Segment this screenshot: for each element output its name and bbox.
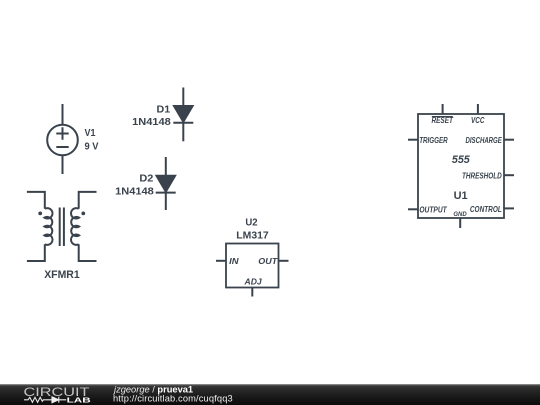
svg-text:ADJ: ADJ <box>243 278 262 287</box>
pin OUT wire <box>279 260 289 262</box>
pin GND wire <box>459 218 461 228</box>
svg-text:9 V: 9 V <box>85 142 99 153</box>
svg-text:OUTPUT: OUTPUT <box>419 206 447 215</box>
regulator U2 box <box>216 244 289 297</box>
wire <box>182 123 184 142</box>
footer bar <box>0 384 540 405</box>
wire <box>165 193 167 210</box>
transformer XFMR1 <box>27 192 97 261</box>
svg-text:U2: U2 <box>245 217 257 229</box>
logo resistor zigzag <box>24 397 47 402</box>
svg-text:GND: GND <box>453 211 467 218</box>
wire <box>79 192 97 209</box>
wire <box>62 155 64 174</box>
RESET overline <box>432 116 453 118</box>
svg-text:DISCHARGE: DISCHARGE <box>466 136 503 145</box>
pin TRIGGER wire <box>408 139 418 141</box>
svg-text:1N4148: 1N4148 <box>132 116 171 128</box>
diode D1 <box>173 88 193 142</box>
svg-text:V1: V1 <box>85 128 96 139</box>
diode D2 <box>156 157 176 210</box>
wire <box>27 192 45 209</box>
logo diode <box>47 397 66 403</box>
core <box>60 208 64 247</box>
wire <box>79 244 97 261</box>
pin THRESHOLD wire <box>504 174 514 176</box>
svg-text:XFMR1: XFMR1 <box>44 269 80 281</box>
svg-text:VCC: VCC <box>471 116 485 125</box>
svg-text:LAB: LAB <box>67 396 92 405</box>
secondary winding <box>71 208 79 245</box>
pin CONTROL wire <box>504 207 514 209</box>
svg-text:U1: U1 <box>454 190 468 202</box>
svg-text:RESET: RESET <box>431 116 453 125</box>
pin DISCHARGE wire <box>504 139 514 141</box>
svg-text:OUT: OUT <box>258 257 278 266</box>
polarity dots <box>38 212 42 216</box>
svg-text:IN: IN <box>229 257 239 266</box>
pin ADJ wire <box>251 288 253 297</box>
svg-text:1N4148: 1N4148 <box>115 186 154 198</box>
svg-text:CONTROL: CONTROL <box>470 205 502 214</box>
svg-text:555: 555 <box>452 154 471 166</box>
wire <box>27 244 45 261</box>
voltage source V1 <box>47 104 78 174</box>
svg-text:TRIGGER: TRIGGER <box>419 136 448 145</box>
svg-text:D2: D2 <box>139 173 153 185</box>
wire <box>182 88 184 107</box>
svg-text:THRESHOLD: THRESHOLD <box>462 171 502 180</box>
pin RESET wire <box>442 104 444 114</box>
primary winding <box>44 208 52 245</box>
svg-text:D1: D1 <box>157 103 171 115</box>
pin IN wire <box>216 260 226 262</box>
wire <box>62 104 64 125</box>
svg-text:http://circuitlab.com/cuqfqq3: http://circuitlab.com/cuqfqq3 <box>113 394 233 404</box>
svg-text:LM317: LM317 <box>236 230 269 242</box>
pin VCC wire <box>477 104 479 114</box>
wire <box>165 157 167 176</box>
555 timer U1 box <box>408 104 514 228</box>
pin OUTPUT wire <box>408 208 418 210</box>
